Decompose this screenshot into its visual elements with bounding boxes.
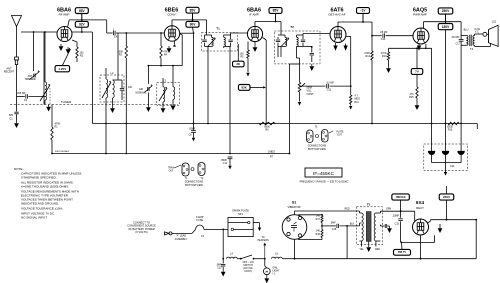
wire osc padder drop — [147, 66, 149, 84]
wire T4 primary drop — [460, 22, 462, 36]
transformer T5 primary — [359, 211, 361, 213]
wire T1 secondary to V3 grid — [230, 33, 232, 35]
coil L3 primary — [162, 78, 164, 87]
wire plate rail drop to C4 — [106, 20, 108, 33]
dial light I1 — [263, 268, 270, 275]
ground V2 cathode — [168, 46, 170, 48]
resistor R1 470K vertical — [51, 105, 53, 128]
svg-text:.05MF: .05MF — [189, 129, 196, 131]
svg-text:HEATERS: HEATERS — [257, 239, 269, 242]
callout box IF=455KC — [305, 168, 342, 177]
ground L1 bottom — [48, 105, 50, 107]
wire V5 screen drop to filter — [445, 30, 447, 142]
svg-text:1MEG: 1MEG — [268, 150, 275, 153]
svg-text:CONT: CONT — [307, 93, 315, 96]
voltage callout 92V at V1 screen — [75, 21, 88, 27]
wire T4 return drop to filter — [460, 45, 462, 141]
wire 82K arrow — [250, 86, 264, 88]
wire diode filter link — [303, 45, 312, 47]
capacitor C12 AVC bypass — [228, 156, 233, 158]
transformer T4 primary — [461, 35, 466, 37]
voltage callout 85V at V2 plate — [186, 7, 199, 13]
callout box 2K below V3 — [237, 44, 239, 61]
ground dial light — [266, 275, 268, 277]
svg-text:CONT): CONT) — [244, 270, 252, 273]
wire V1 plate to top rail — [68, 21, 70, 28]
ground V5 center pin — [418, 44, 420, 46]
slug arrow L2 — [102, 82, 111, 98]
resistor R4 47K — [160, 33, 162, 46]
ground osc padder — [147, 93, 149, 106]
tube V4 6AT6 detector-AVC-AF — [330, 27, 346, 43]
voltage callout 85V at V1 plate — [75, 8, 88, 14]
wire L5 to vibrator — [282, 258, 294, 260]
svg-text:OUT: OUT — [169, 171, 174, 173]
filter dashed box — [424, 144, 468, 170]
junction dots ground bus — [105, 153, 107, 155]
wire tuner dashed slug line L1 — [49, 88, 51, 105]
wire 230V stem down — [446, 200, 448, 220]
ground T5 center — [368, 242, 370, 246]
slug arrow T2 primary — [282, 39, 290, 47]
ground R13 — [388, 66, 390, 68]
resistor R12 470K AVC — [371, 36, 373, 51]
svg-text:TRAN: TRAN — [168, 167, 175, 170]
svg-text:PWR AMP: PWR AMP — [413, 12, 427, 16]
resistor R16 8200 in bus — [448, 122, 459, 125]
resistor R5 100 cathode — [247, 42, 249, 51]
svg-text:.5MF: .5MF — [330, 221, 336, 224]
svg-text:85V: 85V — [79, 9, 86, 13]
transformer T2 dashed box — [274, 31, 320, 64]
resistor R17 240 — [321, 214, 323, 217]
svg-text:C18: C18 — [332, 228, 337, 231]
wire antenna grid bus — [21, 31, 57, 33]
arrow filter to ground — [444, 172, 447, 176]
svg-text:IF AMP: IF AMP — [249, 12, 259, 16]
svg-text:VOLTAGE TOLERANCE ±10%.: VOLTAGE TOLERANCE ±10%. — [21, 207, 63, 211]
svg-text:C12: C12 — [223, 163, 228, 165]
svg-text:R18: R18 — [316, 233, 321, 236]
svg-text:R16: R16 — [448, 129, 453, 132]
choke L4 — [227, 257, 238, 259]
svg-text:85V: 85V — [190, 8, 197, 12]
connections bottom view T5 — [307, 130, 314, 143]
tube V5 6AQ5 power amplifier — [413, 28, 429, 44]
ground V1 cathode — [60, 44, 62, 46]
spark plate upper electrode — [228, 222, 248, 224]
capacitor C11 .02MF series — [326, 84, 328, 88]
wire V3 screen drop — [263, 38, 267, 41]
svg-text:92V: 92V — [79, 22, 86, 26]
capacitor T2 secondary — [302, 35, 304, 39]
svg-text:BLK: BLK — [350, 223, 355, 226]
svg-text:BLU: BLU — [464, 29, 469, 32]
svg-text:K=ONE THOUSAND (1000) OHMS.: K=ONE THOUSAND (1000) OHMS. — [21, 185, 69, 189]
svg-text:250V: 250V — [442, 9, 450, 13]
slug arrow T1 primary — [208, 39, 216, 47]
svg-text:SP1: SP1 — [238, 213, 243, 216]
capacitor C15 .02MF — [400, 211, 402, 218]
speaker voice coil — [483, 32, 487, 36]
wire V2 screen stem — [193, 27, 194, 33]
wire L2 secondary top — [113, 79, 119, 81]
wire V1 screen bypass — [72, 31, 93, 33]
svg-text:R13: R13 — [382, 55, 387, 58]
svg-text:ASSEMBLY: ASSEMBLY — [175, 238, 188, 241]
vibrator pins — [287, 218, 290, 221]
wire T1 secondary AVC drop — [229, 46, 231, 153]
wire T2 secondary return — [296, 49, 298, 59]
slug arrow L1 — [40, 85, 50, 101]
svg-text:NO SIGNAL INPUT: NO SIGNAL INPUT — [21, 216, 47, 220]
feedthrough capacitors C14 — [431, 142, 433, 152]
svg-text:RECEPT: RECEPT — [4, 69, 15, 73]
capacitor C1 to ground — [16, 93, 18, 112]
voltage callout PRI box — [394, 249, 411, 255]
ground V6 heater pin — [439, 224, 441, 226]
wire V3 callout stem — [275, 13, 277, 21]
transformer T5 secondary — [374, 213, 376, 241]
svg-text:DET-AVC-AF: DET-AVC-AF — [329, 12, 346, 16]
wire heater line to V6 — [347, 258, 420, 260]
svg-text:64D70451A03: 64D70451A03 — [55, 150, 70, 153]
ground R15 — [416, 103, 418, 105]
svg-text:IF=455KC: IF=455KC — [313, 171, 334, 176]
coil T1 primary — [211, 35, 213, 37]
svg-text:FREQUENCY RANGE — 535 TO 162: FREQUENCY RANGE — 535 TO 1620KC — [300, 179, 349, 183]
svg-text:230V: 230V — [443, 195, 450, 199]
svg-text:7V: 7V — [415, 70, 419, 74]
fuse F1 9 amp — [196, 225, 204, 229]
ground V4 diode plates — [335, 43, 337, 46]
transformer T4 core — [469, 35, 471, 46]
antenna trimmer — [33, 32, 35, 71]
wire T5 secondary top out — [380, 210, 414, 212]
svg-text:T2: T2 — [290, 25, 294, 29]
svg-text:1.25V: 1.25V — [58, 67, 66, 71]
svg-text:G1: G1 — [292, 201, 297, 205]
svg-text:.02 MF: .02 MF — [326, 82, 334, 85]
resistor R18 240 — [321, 226, 323, 230]
junction AVC drop — [371, 35, 373, 37]
capacitor C18 .5MF buffer — [322, 225, 336, 227]
wire V5 callout stem — [445, 14, 447, 24]
ground V3 cathode left — [254, 42, 256, 45]
svg-text:PRI 7V: PRI 7V — [398, 250, 406, 254]
svg-text:INDICATED AND GROUND.: INDICATED AND GROUND. — [21, 202, 59, 206]
svg-text:6X4: 6X4 — [416, 200, 425, 205]
svg-text:C13: C13 — [381, 38, 386, 41]
transformer T5 core — [366, 212, 371, 242]
svg-text:OTHERWISE SPECIFIED.: OTHERWISE SPECIFIED. — [21, 176, 57, 180]
wire battery down leg — [222, 229, 224, 258]
svg-text:RECT: RECT — [416, 206, 424, 210]
wire voice coil link — [487, 33, 489, 35]
wire 230V stem up to filter — [446, 186, 448, 194]
AVC and B+ bus line — [93, 123, 478, 125]
wire filament tap to T5 — [346, 226, 348, 259]
svg-text:V.C.: V.C. — [475, 31, 480, 34]
capacitor T2 primary — [277, 37, 279, 39]
wire A lead — [172, 232, 192, 234]
wire V4 plate rail to C13 — [371, 22, 373, 36]
svg-text:TUNER: TUNER — [61, 100, 72, 104]
svg-text:T1: T1 — [216, 26, 220, 30]
junction C4 R3 — [125, 32, 127, 34]
svg-text:FUSE: FUSE — [196, 219, 203, 222]
connections bottom view T1 T2 — [182, 163, 189, 176]
capacitor C10 .5MF — [222, 259, 224, 264]
svg-text:LS1: LS1 — [492, 20, 497, 24]
svg-text:NOTE:-: NOTE:- — [14, 167, 24, 171]
svg-text:R11: R11 — [355, 101, 360, 104]
svg-text:BOTTOM VIEW: BOTTOM VIEW — [185, 184, 203, 187]
ground L3 tickler — [172, 104, 174, 106]
resistor R3 100K — [125, 33, 127, 46]
wire spark plate out — [253, 222, 259, 224]
resistor R13 270K grid leak — [388, 48, 390, 52]
svg-text:GRN: GRN — [386, 208, 392, 211]
capacitor T5 bottom right — [380, 225, 384, 227]
coil T1 secondary — [223, 35, 225, 37]
svg-text:PLATE: PLATE — [336, 131, 344, 134]
capacitor C6 .05MF bypass — [191, 130, 196, 132]
transformer T5 dashed box — [357, 207, 383, 245]
svg-text:-1V: -1V — [361, 9, 367, 13]
wire vibrator sec bottom — [298, 239, 322, 241]
svg-text:.005 MF: .005 MF — [16, 92, 26, 95]
wire V2 osc anode drop — [180, 34, 183, 36]
svg-text:CONV: CONV — [167, 12, 175, 16]
svg-text:(6 VOLTS): (6 VOLTS) — [135, 230, 147, 234]
svg-text:BOTTOM VIEW: BOTTOM VIEW — [308, 148, 326, 151]
tube V1 6BA6 RF amplifier — [57, 27, 72, 42]
tube V6 6X4 rectifier — [413, 219, 429, 235]
svg-text:OUT: OUT — [337, 135, 342, 137]
transformer T1 dashed box — [201, 33, 237, 51]
spark plate lower electrode — [234, 228, 254, 230]
wire vibrator top to T5 — [294, 211, 296, 215]
wire V4 callout stem — [362, 13, 364, 22]
arrow R5 bottom — [246, 73, 249, 77]
wire T2 primary return drop — [280, 46, 282, 57]
svg-text:R15: R15 — [409, 96, 414, 99]
svg-text:100: 100 — [128, 86, 133, 89]
capacitor L2 padder — [121, 80, 123, 88]
voltage callout 230V — [439, 194, 454, 200]
wire screen bypass C6 drop — [193, 33, 195, 130]
chassis ground bus — [52, 153, 289, 155]
svg-text:NOMINAL: NOMINAL — [136, 91, 148, 94]
svg-text:RED: RED — [344, 208, 349, 211]
svg-text:85V: 85V — [273, 9, 280, 13]
voltage callout -1V at V4 plate — [357, 8, 370, 14]
wire V6 plate in — [414, 211, 416, 221]
vibrator G1 circle — [282, 215, 307, 240]
wire V6 bottom line — [401, 241, 435, 243]
wire osc link — [148, 65, 182, 67]
wire V1 callout stem — [81, 14, 83, 22]
wire 180VAC stem — [400, 200, 402, 211]
svg-text:T4: T4 — [470, 47, 474, 51]
capacitor C4 3MMF series — [107, 32, 113, 34]
wire fuse to spark plate — [204, 228, 228, 230]
wire bus right end down — [476, 124, 478, 130]
spark plate SP1 box — [228, 217, 253, 236]
voltage callout 90V at V2 screen — [186, 21, 199, 27]
wire V4 plate top route — [337, 22, 339, 27]
voltage callout 250V at V5 plate — [438, 8, 453, 14]
svg-text:TRIMMER: TRIMMER — [24, 78, 35, 81]
coil T2 primary — [280, 22, 282, 36]
svg-text:C14: C14 — [450, 165, 455, 168]
wire V2 screen link — [180, 32, 194, 34]
resistor R6 6800 in bus — [259, 122, 275, 125]
wire V4 diode out — [346, 36, 351, 38]
capacitor T1 secondary — [230, 35, 232, 39]
on-off switch — [237, 258, 240, 260]
wire V3 plate up — [254, 22, 256, 27]
wire V6 cathode out — [428, 221, 431, 223]
volume control 500K — [299, 64, 301, 82]
wire V1 cathode bus — [72, 40, 77, 42]
wire screen bypass drop — [92, 32, 94, 124]
wire volume line — [300, 85, 326, 87]
voltage callout 180V at V5 screen — [438, 24, 453, 30]
svg-text:C11: C11 — [327, 89, 332, 92]
wire T2 secondary to V4 grid — [302, 34, 304, 36]
capacitor C2 .005MF series — [17, 95, 25, 97]
svg-text:C15: C15 — [395, 223, 400, 226]
wire to heaters arrow — [263, 243, 266, 246]
coil L2 RF dashed box — [100, 75, 124, 102]
svg-text:180V: 180V — [442, 25, 450, 29]
ground L3 primary — [162, 106, 164, 108]
speaker LS1 — [489, 25, 499, 46]
battery connector plug — [165, 232, 169, 235]
slug arrow L3 — [159, 88, 167, 101]
resistor R2 150 ohm — [76, 42, 78, 47]
choke L5 — [272, 257, 283, 259]
wire V2 plate to T1 — [171, 20, 173, 26]
svg-text:180VAC: 180VAC — [395, 195, 405, 199]
callout box 82K — [238, 85, 250, 91]
coil L2 secondary — [113, 80, 115, 98]
voltage callout 85V at V3 plate — [269, 8, 282, 14]
tube V2 6BE6 converter — [164, 26, 179, 41]
svg-text:.004 MF: .004 MF — [451, 37, 460, 39]
ground below C1 — [16, 121, 18, 123]
svg-text:T5: T5 — [367, 202, 371, 206]
osc trimmer padder 430 nominal — [144, 86, 152, 93]
coil T2 secondary — [296, 35, 298, 37]
wire T5 bottom taps — [361, 241, 363, 247]
ground T2 filter — [311, 64, 313, 66]
svg-text:YEL: YEL — [359, 249, 364, 251]
wire V5 plate rail — [423, 22, 425, 29]
capacitor T1 primary — [204, 35, 206, 39]
wire PRI box stem — [401, 242, 404, 249]
ground L2 secondary — [112, 106, 114, 108]
capacitor C13 .05MF series — [372, 35, 382, 37]
wire T4 secondary to speaker — [474, 34, 476, 36]
svg-text:C17: C17 — [456, 44, 461, 46]
wire V6 heater loop — [420, 235, 422, 259]
svg-text:82K: 82K — [242, 85, 248, 89]
capacitor T2 diode filter — [311, 47, 313, 53]
wire vibrator sec top — [298, 214, 322, 216]
voltage callout 1.25V at V1 cathode — [55, 66, 70, 72]
svg-text:.05MF: .05MF — [220, 160, 227, 162]
vibrator internals — [291, 225, 297, 227]
wire AVC to antenna coil — [43, 32, 45, 105]
resistor R11 4.7MEG — [350, 86, 352, 95]
voltage callout 7V cathode — [416, 48, 418, 68]
svg-text:RED: RED — [375, 249, 380, 251]
svg-text:90V: 90V — [190, 22, 197, 26]
coil L3 tickler — [172, 66, 174, 87]
svg-text:.05 MF: .05 MF — [380, 31, 388, 34]
svg-text:C10: C10 — [217, 267, 222, 270]
antenna — [12, 16, 22, 27]
resistor R15 470 cathode — [416, 74, 418, 87]
svg-text:.02MF: .02MF — [392, 215, 399, 218]
svg-text:RF AMP: RF AMP — [59, 12, 70, 16]
coil L2 primary — [105, 68, 107, 79]
tube V3 6BA6 IF amplifier — [247, 26, 262, 41]
wire V5 cathode rail — [425, 44, 427, 48]
capacitor C17 .004MF — [459, 38, 464, 40]
pointer line 1.25V to cathode — [62, 49, 70, 66]
svg-text:R12: R12 — [365, 55, 370, 58]
antenna receptacle connector — [15, 57, 19, 60]
svg-text:R17: R17 — [316, 218, 321, 221]
wire T1 primary return drop — [207, 46, 209, 123]
wire V2 callout stem — [192, 13, 194, 21]
coil L1 antenna coil — [44, 32, 46, 82]
transformer T4 secondary — [473, 36, 475, 46]
tuner gang dashed line — [10, 104, 178, 106]
resistor R7 1MEG vertical — [288, 64, 290, 154]
wire heater drop to filter — [431, 48, 433, 141]
svg-text:VIBRATOR: VIBRATOR — [287, 205, 300, 209]
voltage callout 180VAC — [392, 194, 410, 200]
ground C10 — [222, 270, 224, 272]
wire V1 screen stem — [81, 27, 83, 32]
coil L3 oscillator dashed box — [157, 83, 180, 106]
